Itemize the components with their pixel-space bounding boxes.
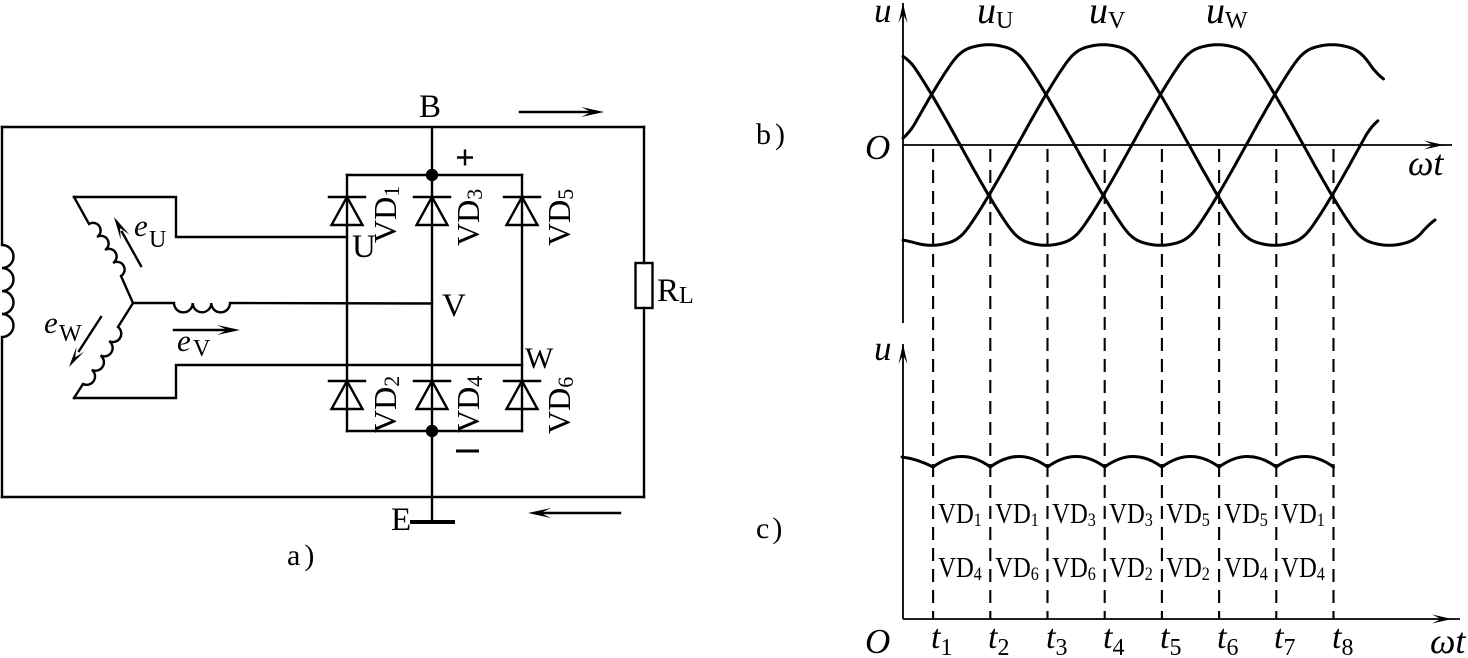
diode VD3 xyxy=(414,197,450,225)
bridge left column wire xyxy=(346,175,348,431)
svg-text:V: V xyxy=(1108,8,1126,34)
svg-text:V: V xyxy=(193,336,211,362)
dashed line t4 xyxy=(1104,149,1106,619)
svg-text:e: e xyxy=(134,208,148,243)
wire outer loop right side lower xyxy=(643,308,645,497)
resistor RL xyxy=(636,263,653,308)
dashed line t3 xyxy=(1046,149,1048,619)
emf arrow eW xyxy=(79,317,101,351)
label plus xyxy=(457,150,473,166)
svg-text:U: U xyxy=(996,8,1013,34)
curve uV xyxy=(903,45,1378,245)
label minus xyxy=(456,450,479,453)
svg-text:u: u xyxy=(874,329,892,368)
diode VD4 xyxy=(414,381,450,409)
svg-text:ωt: ωt xyxy=(1430,621,1466,658)
emf arrow eU xyxy=(122,232,141,266)
junction dot bottom rail xyxy=(426,425,438,437)
svg-text:U: U xyxy=(149,227,166,253)
svg-text:E: E xyxy=(391,502,411,538)
bridge top rail wire xyxy=(347,174,522,176)
curve rectified output ud xyxy=(902,457,1334,468)
svg-text:O: O xyxy=(865,128,890,167)
wire outer loop right side upper xyxy=(643,127,645,263)
emf arrow eV xyxy=(174,329,226,331)
dashed line t8 xyxy=(1332,149,1334,619)
svg-text:u: u xyxy=(1089,0,1108,32)
axis b vertical xyxy=(902,3,904,323)
svg-text:e: e xyxy=(44,305,58,340)
svg-text:W: W xyxy=(1225,8,1248,34)
svg-text:W: W xyxy=(59,321,82,347)
axis c vertical xyxy=(902,344,904,619)
svg-text:V: V xyxy=(442,288,466,324)
svg-text:u: u xyxy=(1206,0,1225,32)
svg-text:B: B xyxy=(419,89,441,125)
bridge right column wire xyxy=(521,175,523,431)
transformer primary winding left edge with coil xyxy=(2,127,14,497)
svg-text:a): a) xyxy=(287,539,318,572)
svg-text:ωt: ωt xyxy=(1408,143,1444,183)
wire U phase staircase xyxy=(74,197,347,237)
secondary winding U coil xyxy=(74,197,133,303)
wire negative rail to terminal E xyxy=(431,431,433,522)
dashed line t1 xyxy=(932,149,934,619)
secondary winding V coil and wire xyxy=(133,303,432,312)
diode VD5 xyxy=(504,197,540,225)
junction dot top rail xyxy=(426,169,438,181)
node B terminal wire xyxy=(431,127,433,175)
diode VD6 xyxy=(504,381,540,409)
bridge bottom rail wire xyxy=(347,430,522,432)
curve uW xyxy=(903,45,1435,245)
axis b horizontal xyxy=(903,144,1452,146)
current arrow top xyxy=(520,111,596,113)
wire outer loop top side xyxy=(2,126,644,128)
dashed line t6 xyxy=(1218,149,1220,619)
wire outer loop bottom side xyxy=(2,496,644,498)
svg-text:U: U xyxy=(352,229,376,265)
wire W phase staircase xyxy=(74,365,522,398)
dashed line t7 xyxy=(1275,149,1277,619)
dashed line t2 xyxy=(989,149,991,619)
dashed line t5 xyxy=(1161,149,1163,619)
secondary winding W coil xyxy=(74,303,133,398)
svg-text:c): c) xyxy=(756,512,785,545)
svg-text:O: O xyxy=(865,622,890,658)
svg-text:u: u xyxy=(874,0,892,30)
curve uU xyxy=(903,45,1384,245)
diode VD1 xyxy=(329,197,365,225)
svg-text:u: u xyxy=(977,0,996,32)
terminal E bar xyxy=(410,520,455,524)
current arrow bottom xyxy=(536,512,620,514)
diode VD2 xyxy=(329,381,365,409)
axis c horizontal xyxy=(903,618,1460,620)
svg-text:W: W xyxy=(525,342,554,375)
svg-text:e: e xyxy=(177,323,191,358)
svg-text:b): b) xyxy=(756,118,789,151)
bridge middle column wire xyxy=(431,175,433,431)
